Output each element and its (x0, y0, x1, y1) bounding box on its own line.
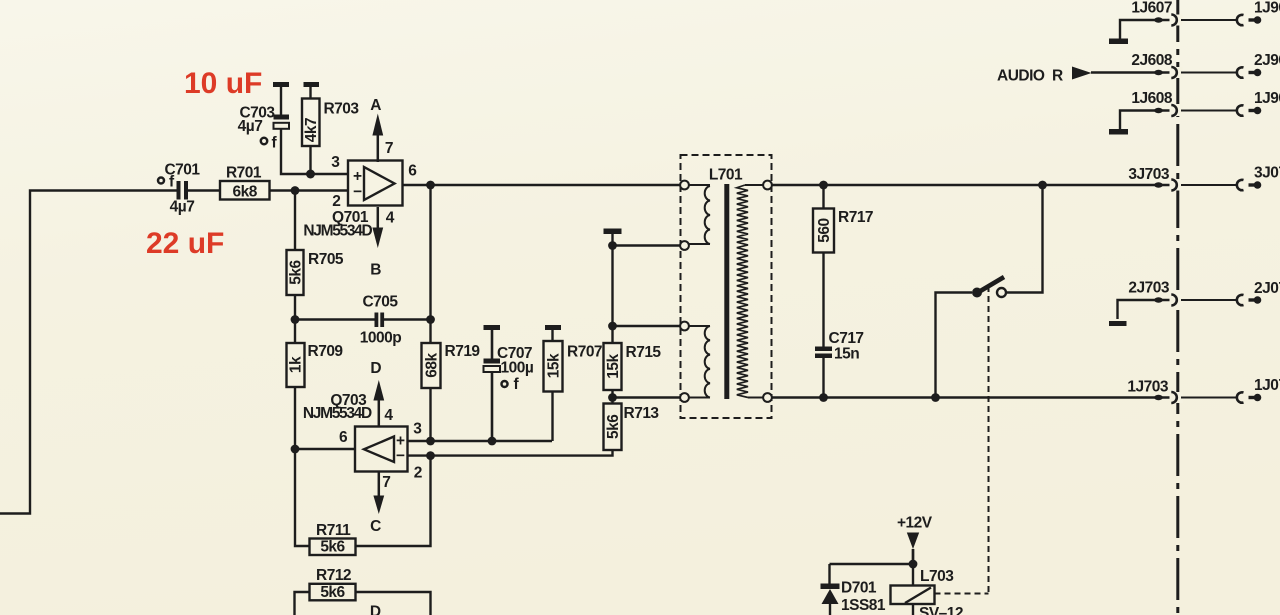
svg-text:R705: R705 (308, 251, 344, 268)
svg-text:R: R (1052, 68, 1063, 85)
svg-text:2J608: 2J608 (1131, 52, 1172, 69)
svg-text:R715: R715 (626, 344, 662, 361)
svg-text:2J703: 2J703 (1128, 280, 1169, 297)
svg-text:+12V: +12V (897, 515, 933, 532)
svg-text:4k7: 4k7 (303, 118, 320, 142)
svg-text:R701: R701 (226, 165, 262, 182)
svg-text:7: 7 (385, 140, 394, 157)
svg-text:100µ: 100µ (501, 360, 534, 377)
svg-text:3: 3 (331, 154, 340, 171)
svg-text:R703: R703 (323, 101, 359, 118)
svg-text:68k: 68k (424, 352, 441, 377)
svg-text:3J703: 3J703 (1128, 166, 1169, 183)
svg-text:1SS81: 1SS81 (841, 597, 886, 614)
svg-text:1J607: 1J607 (1131, 0, 1172, 17)
svg-text:1J90: 1J90 (1254, 90, 1280, 107)
svg-text:3J07: 3J07 (1254, 165, 1280, 182)
svg-text:2J90: 2J90 (1254, 52, 1280, 69)
svg-text:2: 2 (332, 193, 341, 210)
svg-text:D: D (370, 604, 381, 615)
svg-text:560: 560 (816, 218, 833, 242)
svg-text:−: − (353, 184, 362, 201)
svg-text:4: 4 (386, 210, 395, 227)
svg-text:C705: C705 (362, 294, 398, 311)
svg-text:1J90: 1J90 (1254, 0, 1280, 17)
svg-text:2: 2 (414, 465, 423, 482)
svg-text:1J608: 1J608 (1131, 90, 1172, 107)
svg-text:C: C (370, 518, 381, 535)
svg-text:+: + (353, 168, 362, 185)
svg-text:5k6: 5k6 (320, 584, 345, 601)
svg-text:R711: R711 (316, 522, 351, 539)
svg-text:5k6: 5k6 (288, 259, 305, 284)
svg-text:NJM5534D: NJM5534D (303, 405, 372, 422)
svg-text:R709: R709 (308, 343, 344, 360)
svg-text:AUDIO: AUDIO (997, 68, 1045, 85)
svg-text:10 uF: 10 uF (184, 67, 262, 100)
svg-text:R707: R707 (567, 344, 602, 361)
svg-text:4: 4 (384, 407, 393, 424)
svg-text:A: A (370, 97, 381, 114)
svg-text:5k6: 5k6 (605, 414, 622, 439)
svg-text:1000p: 1000p (360, 330, 401, 347)
svg-text:5k6: 5k6 (320, 539, 345, 556)
svg-text:3: 3 (413, 421, 422, 438)
svg-text:R713: R713 (624, 405, 660, 422)
svg-text:15k: 15k (605, 353, 622, 378)
svg-text:R717: R717 (838, 209, 873, 226)
svg-text:15k: 15k (546, 353, 563, 378)
svg-text:6: 6 (339, 429, 348, 446)
svg-text:R719: R719 (445, 343, 481, 360)
svg-text:D: D (370, 360, 381, 377)
svg-text:1J703: 1J703 (1127, 379, 1168, 396)
svg-text:15n: 15n (834, 346, 859, 363)
svg-text:6k8: 6k8 (233, 184, 258, 201)
svg-text:C717: C717 (829, 330, 864, 347)
svg-text:B: B (370, 262, 381, 279)
svg-text:R712: R712 (316, 567, 351, 584)
svg-text:SV–12: SV–12 (919, 605, 963, 615)
svg-text:−: − (396, 447, 405, 464)
svg-text:4µ7: 4µ7 (170, 199, 195, 216)
svg-text:1k: 1k (288, 356, 305, 373)
svg-text:D701: D701 (841, 580, 877, 597)
svg-text:22 uF: 22 uF (146, 227, 224, 260)
svg-text:4µ7: 4µ7 (238, 118, 263, 135)
svg-text:6: 6 (408, 163, 417, 180)
svg-text:L701: L701 (709, 167, 743, 184)
svg-text:NJM5534D: NJM5534D (303, 223, 372, 240)
svg-text:1J07: 1J07 (1254, 377, 1280, 394)
svg-text:L703: L703 (920, 568, 954, 585)
svg-text:7: 7 (382, 474, 391, 491)
svg-text:2J07: 2J07 (1254, 280, 1280, 297)
